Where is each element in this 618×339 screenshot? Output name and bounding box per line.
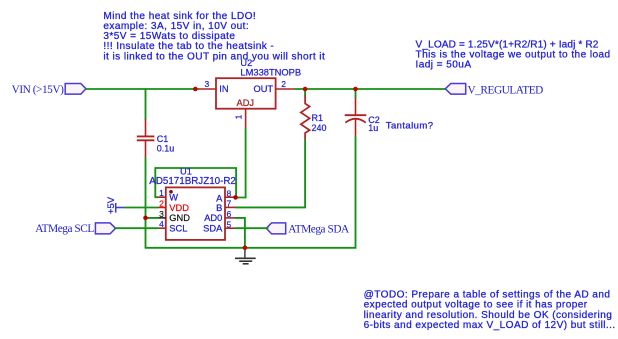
note: V_LOAD formula text	[416, 40, 611, 71]
svg-text:8: 8	[227, 188, 232, 198]
wire U2 ADJ down to U1 pin8 junction	[236, 129, 246, 198]
wire C1 bottom to ground rail	[145, 158, 147, 248]
svg-text:6-bits and expected max V_LOAD: 6-bits and expected max V_LOAD of 12V) b…	[364, 320, 616, 331]
svg-text:VIN (>15V): VIN (>15V)	[12, 84, 64, 96]
svg-text:B: B	[216, 203, 222, 213]
note: @TODO text	[364, 290, 616, 332]
svg-text:LM338TNOPB: LM338TNOPB	[240, 67, 301, 77]
wire GND rail to U1 pin3	[146, 217, 158, 219]
capacitor C2 1u (polarized)	[345, 98, 380, 137]
svg-text:1u: 1u	[368, 123, 378, 133]
wire U1 pin6 AD0 to ground rail	[235, 218, 245, 248]
wire VIN to U2 pin3	[86, 88, 198, 90]
svg-text:C1: C1	[157, 134, 169, 144]
svg-text:5: 5	[227, 219, 232, 229]
svg-text:ADJ: ADJ	[237, 98, 255, 108]
U1 pin 8 (A)	[225, 196, 235, 198]
svg-text:240: 240	[312, 123, 327, 133]
global label ATMega SDA	[266, 223, 350, 235]
svg-text:4: 4	[159, 219, 164, 229]
svg-text:SCL: SCL	[169, 224, 187, 234]
junction at VIN/U2 pin3	[193, 87, 198, 92]
wire C2 bottom to ground rail	[146, 137, 356, 248]
wire ATMega SCL to U1 pin4	[115, 227, 158, 229]
svg-text:Iadj = 50uA: Iadj = 50uA	[416, 60, 472, 71]
svg-text:7: 7	[227, 199, 232, 209]
wire R1 top lead	[304, 89, 306, 96]
svg-text:1: 1	[159, 188, 164, 198]
svg-text:3: 3	[159, 209, 164, 219]
svg-text:GND: GND	[169, 213, 190, 223]
U1 pin 2 (VDD)	[158, 207, 166, 209]
svg-text:6: 6	[227, 209, 232, 219]
U2 pin 3 (IN)	[198, 88, 216, 90]
U1 pin 3 (GND)	[158, 217, 166, 219]
global label V_REGULATED	[445, 84, 543, 97]
svg-text:SDA: SDA	[203, 224, 223, 234]
svg-text:VDD: VDD	[169, 203, 189, 213]
wire +5V to U1 pin2 VDD	[125, 207, 158, 209]
U1 pin 7 (B)	[225, 206, 235, 208]
U1 pin 4 (SCL)	[158, 227, 166, 229]
svg-text:V_REGULATED: V_REGULATED	[468, 84, 544, 96]
wire R1 bottom to U1 pin7 (B)	[235, 140, 305, 207]
svg-text:R1: R1	[312, 113, 324, 123]
note: heat sink warning text	[103, 11, 325, 62]
digital pot U1 AD5171BRJZ10-R2	[149, 167, 236, 240]
svg-text:1: 1	[233, 114, 243, 119]
svg-text:AD5171BRJZ10-R2: AD5171BRJZ10-R2	[149, 176, 236, 187]
svg-text:AD0: AD0	[204, 213, 222, 223]
svg-text:Tantalum?: Tantalum?	[386, 121, 434, 132]
junction C2 top	[353, 87, 358, 92]
svg-text:ATMega SCL: ATMega SCL	[35, 223, 94, 235]
U1 pin 5 (SDA)	[225, 227, 235, 229]
global label VIN (>15V)	[12, 84, 86, 96]
power symbol +5V	[106, 196, 125, 214]
junction C1/GND pin3	[143, 216, 148, 221]
svg-text:2: 2	[281, 79, 286, 89]
junction R1 top	[303, 87, 308, 92]
wire U2 OUT to V_REGULATED	[295, 88, 445, 90]
svg-text:2: 2	[159, 199, 164, 209]
regulator U2 LM338TNOPB	[198, 58, 301, 128]
svg-text:0.1u: 0.1u	[157, 144, 175, 154]
svg-text:OUT: OUT	[253, 84, 273, 94]
capacitor C1	[137, 119, 175, 158]
U2 pin 1 (ADJ)	[245, 109, 247, 129]
ground symbol GND	[235, 248, 256, 264]
U1 pin 1 (W)	[158, 196, 166, 198]
svg-text:3: 3	[204, 79, 209, 89]
pin1 indicator dot	[169, 190, 173, 194]
junction at U1 pin8	[233, 195, 238, 200]
svg-text:ATMega SDA: ATMega SDA	[288, 223, 350, 235]
svg-text:+5V: +5V	[106, 196, 117, 214]
U1 pin 6 (AD0)	[225, 217, 235, 219]
global label ATMega SCL	[35, 223, 115, 235]
wire C2 top lead	[355, 89, 357, 98]
resistor R1 240	[301, 96, 327, 141]
svg-text:W: W	[169, 192, 178, 202]
U2 pin 2 (OUT)	[276, 88, 296, 90]
wire C1 top branch	[145, 89, 147, 119]
svg-text:IN: IN	[219, 84, 228, 94]
junction ground rail	[243, 246, 248, 251]
wire U1 pin5 SDA to ATMega SDA label	[235, 227, 267, 229]
svg-text:it is linked to the OUT pin an: it is linked to the OUT pin and you will…	[103, 51, 325, 62]
wire U1 pin1 W loop over top to pin8 A	[155, 168, 236, 198]
